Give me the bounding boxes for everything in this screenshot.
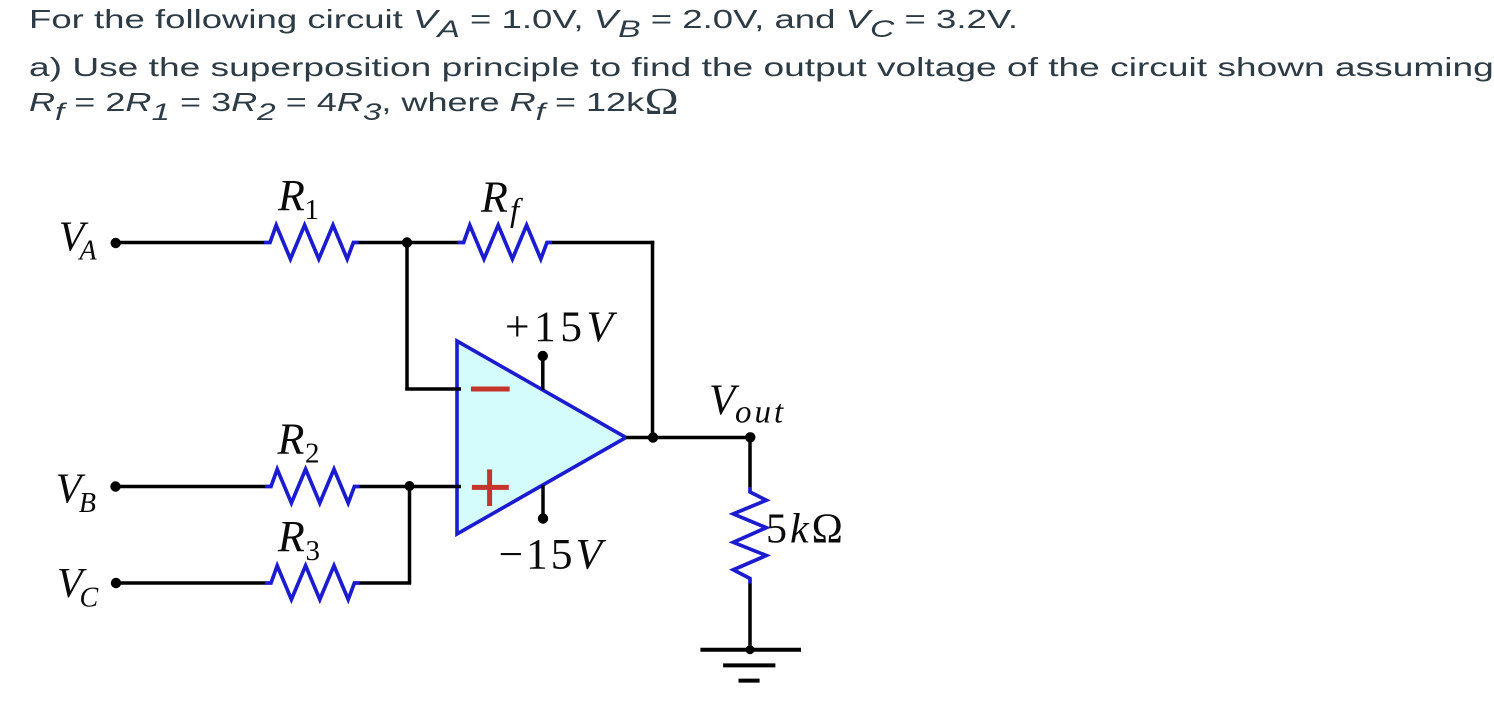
svg-text:3: 3 <box>306 535 321 567</box>
svg-text:2: 2 <box>305 437 320 469</box>
svg-text:R: R <box>277 415 305 464</box>
svg-text:A: A <box>78 236 98 267</box>
svg-text:−15V: −15V <box>499 531 607 579</box>
svg-text:f: f <box>510 193 523 229</box>
svg-text:5kΩ: 5kΩ <box>766 507 846 553</box>
svg-text:R: R <box>277 512 305 561</box>
svg-text:out: out <box>735 395 786 431</box>
svg-text:R: R <box>480 173 508 222</box>
svg-text:R: R <box>277 171 305 220</box>
svg-text:B: B <box>79 488 96 519</box>
svg-text:C: C <box>80 583 99 614</box>
svg-text:+15V: +15V <box>505 303 618 351</box>
svg-text:1: 1 <box>305 194 320 226</box>
